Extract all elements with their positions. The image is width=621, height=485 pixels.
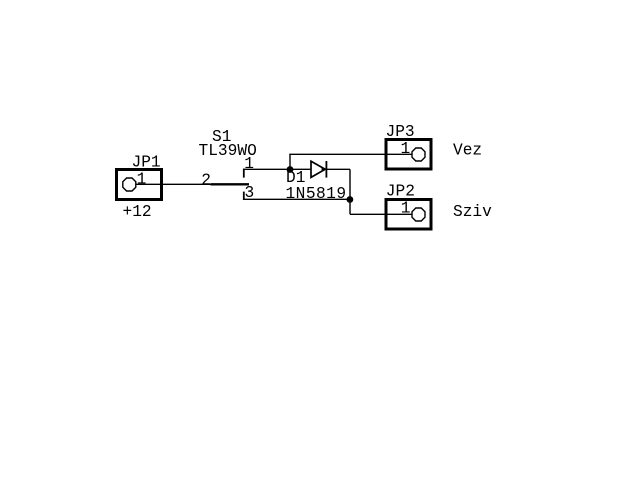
wire S1 pin1 to D1 anode — [243, 168, 311, 170]
connector JP2 — [386, 200, 431, 230]
svg-text:Vez: Vez — [453, 142, 482, 160]
svg-text:1: 1 — [401, 200, 411, 218]
connector JP3 — [386, 140, 431, 170]
svg-text:1: 1 — [244, 155, 254, 173]
wire S1 pin3 to junction — [243, 198, 350, 200]
wire to JP3 — [289, 153, 386, 155]
svg-text:2: 2 — [201, 171, 211, 189]
wire to JP2 — [350, 213, 386, 215]
wire JP1 pin1 to S1 pin 2 — [163, 183, 211, 185]
connector JP1 — [117, 170, 164, 200]
svg-text:+12: +12 — [123, 203, 152, 221]
svg-text:JP3: JP3 — [386, 123, 415, 141]
junction node at S1 pin3 wire — [347, 196, 354, 203]
svg-text:1N5819: 1N5819 — [286, 185, 347, 203]
svg-text:JP2: JP2 — [386, 183, 415, 201]
wire junction up — [289, 154, 291, 169]
svg-text:Sziv: Sziv — [453, 203, 492, 221]
wire down from D1 cathode — [349, 169, 351, 214]
svg-text:JP1: JP1 — [132, 154, 161, 172]
wire D1 cathode right — [326, 168, 350, 170]
svg-text:1: 1 — [401, 140, 411, 158]
junction node at S1 pin1 wire — [287, 166, 294, 173]
switch S1 — [211, 169, 250, 200]
svg-text:1: 1 — [137, 171, 147, 189]
diode D1 — [311, 161, 326, 178]
